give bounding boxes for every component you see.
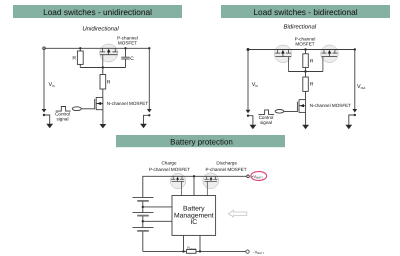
node -VBATT terminal circle (246, 250, 249, 253)
wire Vout branch down (354, 50, 356, 110)
svg-text:N-channel MOSFET: N-channel MOSFET (107, 101, 149, 106)
arrow small (right branch) (147, 109, 152, 113)
svg-text:MOSFET: MOSFET (118, 40, 137, 45)
node right branch dot (148, 114, 150, 116)
svg-text:MOSFET: MOSFET (295, 41, 314, 46)
op: P-MOSFET circle U2a (274, 45, 292, 63)
wire top row (battery panel) (143, 176, 248, 197)
header bar unidirectional (13, 5, 182, 18)
wire Vin branch down (43, 48, 45, 109)
header bar battery protection (116, 135, 285, 147)
svg-text:Bidirectional: Bidirectional (283, 23, 316, 30)
node Rsense left junction (182, 250, 184, 252)
node rail right corner junction (right panel) (354, 48, 356, 50)
wire gate row (80, 67, 125, 69)
arrow Q3 body (up) (281, 50, 285, 54)
oval coupler (left) (72, 107, 81, 111)
capacitor C1 (125, 48, 127, 57)
svg-text:N-channel MOSFET: N-channel MOSFET (310, 103, 352, 108)
wire gate join row (288, 71, 323, 73)
node battery tap 1 (142, 206, 144, 208)
svg-text:Rsense: Rsense (187, 246, 197, 251)
BMS IC box U3 (172, 196, 216, 236)
op: discharge MOSFET circle (203, 173, 219, 189)
callout red ellipse (251, 172, 267, 181)
wire bottom row (143, 250, 246, 252)
arrow Q5 body (left) (300, 104, 304, 107)
resistor Rsense (187, 250, 196, 254)
p-mosfet Q4 symbol (mirrored) (322, 50, 338, 72)
node battery tap 2 (142, 220, 144, 222)
wire right branch down (148, 48, 150, 109)
svg-text:IC: IC (190, 219, 197, 226)
node Vin terminal circle (43, 47, 46, 50)
svg-text:R: R (310, 58, 314, 64)
node R1 top junction (79, 47, 81, 49)
arrow left terminal (right panel) (250, 125, 257, 129)
node Rsense right junction (199, 250, 201, 252)
svg-text:P-channel MOSFET: P-channel MOSFET (149, 167, 190, 172)
oval coupler (right) (275, 110, 284, 114)
wire top rail (right panel) (248, 49, 355, 51)
svg-text:Charge: Charge (161, 161, 177, 166)
node rail right corner junction (148, 47, 150, 49)
arrow Q7 body (up) (210, 177, 213, 180)
block arrow pointing left (228, 210, 247, 217)
resistor R1 (gate-source) (79, 48, 81, 51)
arrow Q2 body (left) (97, 102, 101, 105)
svg-text:P-channel MOSFET: P-channel MOSFET (205, 167, 246, 172)
node gate junction (102, 66, 104, 68)
arrow Q4 body (up) (328, 50, 332, 54)
arrow right terminal (right panel) (345, 125, 352, 129)
arrow Q5 source terminal (302, 125, 309, 129)
resistor R4 (gate pulldown right panel) (305, 72, 307, 78)
svg-text:R: R (310, 82, 314, 88)
n-mosfet Q5 (297, 100, 305, 113)
cell 1 (133, 196, 154, 198)
battery B1 (133, 197, 154, 251)
control signal pulse (left) (56, 107, 71, 112)
arrow Q2 source terminal (100, 124, 107, 128)
wire left jog (right panel) (248, 116, 253, 125)
arrow Q6 body (up) (176, 177, 179, 180)
arrow small (left branch right panel) (246, 110, 251, 114)
cell 3 (133, 226, 154, 228)
arrow small (left branch) (42, 109, 47, 113)
arrow Q1 body (up) (107, 49, 111, 53)
wire left jog (44, 115, 50, 124)
node C top junction (124, 47, 126, 49)
wire Q5 source down (305, 112, 307, 125)
svg-text:signal: signal (260, 120, 272, 125)
svg-text:R: R (72, 56, 76, 62)
svg-text:C: C (130, 56, 134, 62)
wire drain bend (299, 99, 306, 101)
wire Q2 source down (102, 110, 104, 125)
node R3 top junction (304, 48, 306, 50)
wire right jog (144, 115, 150, 124)
arrow left terminal (46, 124, 53, 128)
svg-text:signal: signal (56, 117, 68, 122)
wire top rail (44, 47, 149, 49)
wire tap 1 (143, 206, 172, 208)
arrow right terminal (140, 124, 147, 128)
wire tap 2 (143, 220, 172, 222)
p-mosfet Q7 (discharge) symbol (205, 176, 218, 195)
wire center junction to BMS (193, 176, 195, 195)
cell 2 (133, 212, 154, 214)
node right branch dot (right panel) (354, 114, 356, 116)
node center top junction (193, 175, 195, 177)
resistor R2 (gate pulldown) (102, 68, 104, 75)
wire right jog (right panel) (349, 115, 355, 125)
header bar bidirectional (221, 5, 390, 18)
node Vin terminal dot (right panel) (247, 48, 250, 51)
n-mosfet Q2 (95, 97, 103, 110)
arrow small (right branch right panel) (352, 109, 357, 113)
op: P-MOSFET circle U1 (100, 44, 118, 62)
wire gate (right) (284, 111, 298, 113)
op: P-MOSFET circle U2b (321, 45, 339, 63)
svg-text:Load switches - unidirectional: Load switches - unidirectional (43, 7, 152, 17)
resistor R3 (between rail and gates) (305, 50, 307, 54)
wire Vin branch down (right panel) (247, 50, 249, 111)
node +VBATT terminal circle (247, 175, 250, 178)
control signal pulse (right) (258, 110, 274, 115)
p-mosfet Q6 (charge) symbol (171, 176, 184, 195)
op: charge MOSFET circle (170, 173, 185, 188)
wire gate (left) (81, 108, 94, 110)
node left branch dot (43, 114, 45, 116)
svg-text:R: R (107, 80, 111, 86)
node gate join junction (304, 70, 306, 72)
wire BMS bottom stub left (183, 235, 185, 251)
svg-text:Unidirectional: Unidirectional (82, 26, 119, 33)
svg-text:Load switches - bidirectional: Load switches - bidirectional (253, 7, 357, 17)
node left branch dot (right panel) (247, 115, 249, 117)
p-mosfet Q1 symbol (100, 48, 118, 67)
wire BMS bottom stub right (199, 235, 201, 251)
svg-text:Battery protection: Battery protection (170, 138, 233, 147)
svg-text:Discharge: Discharge (216, 161, 237, 166)
p-mosfet Q3 symbol (275, 50, 291, 72)
svg-text:-VBATT: -VBATT (253, 249, 264, 255)
